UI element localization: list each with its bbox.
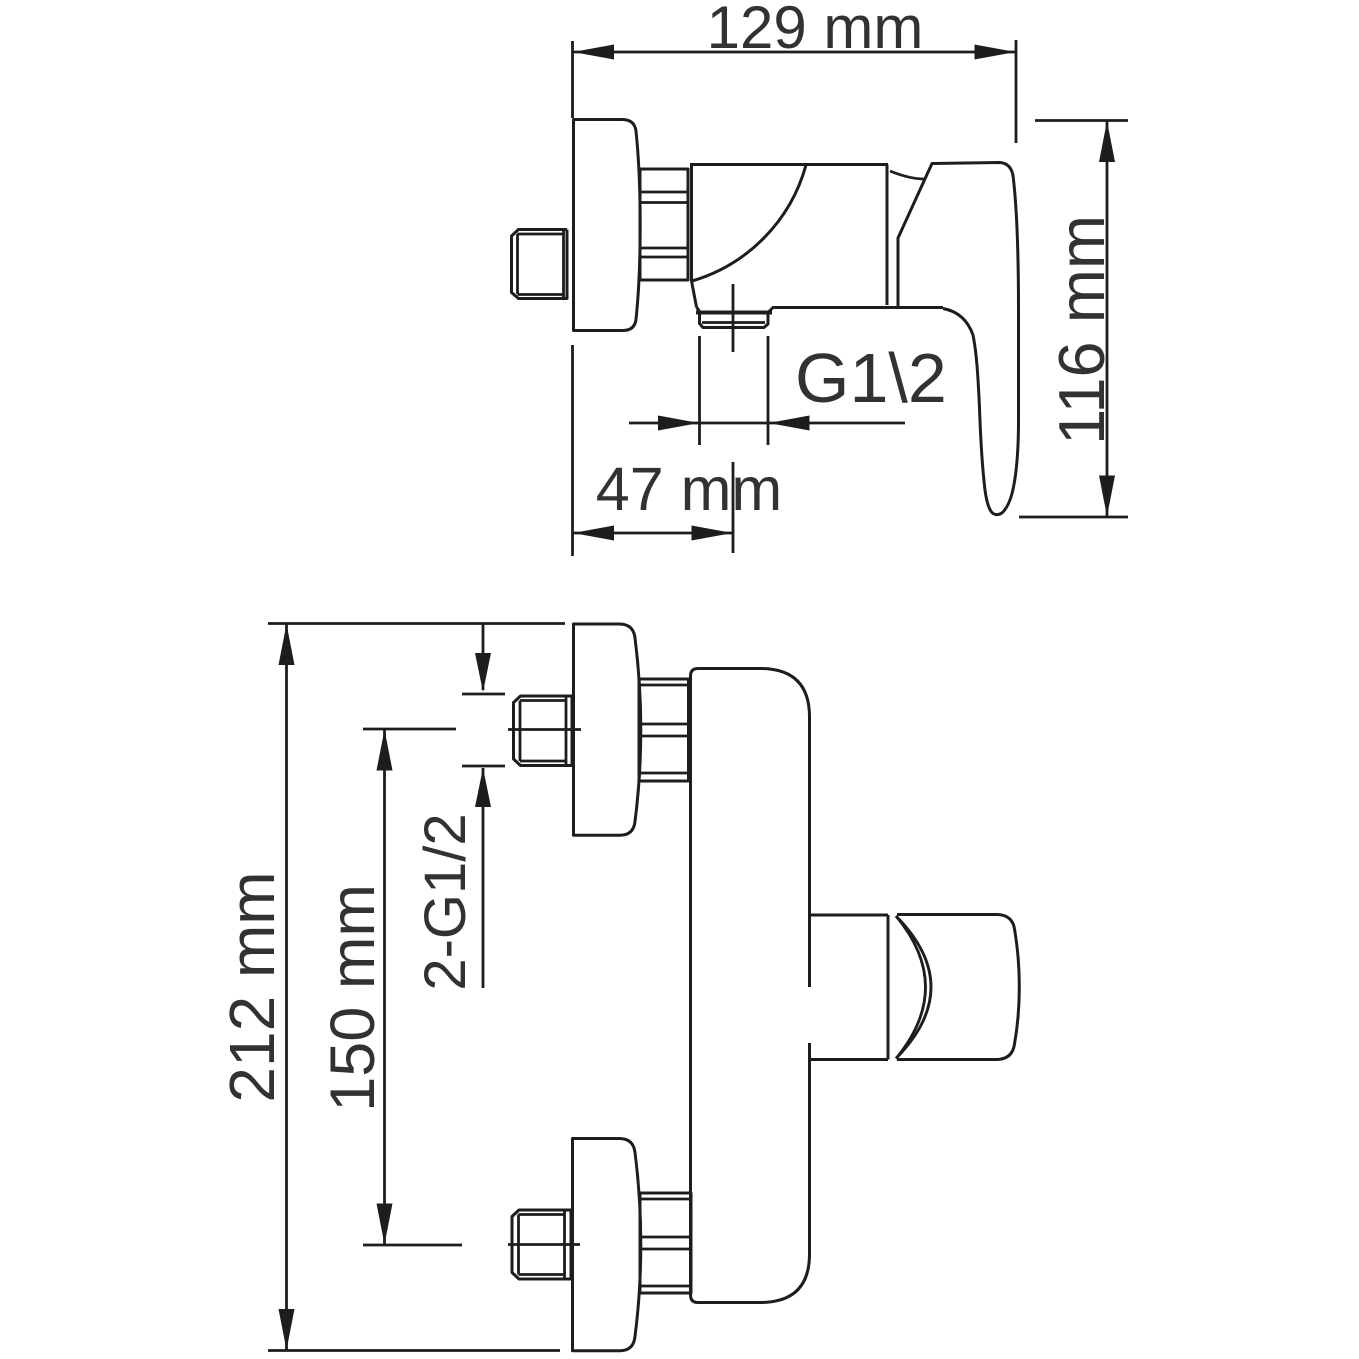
- svg-text:212 mm: 212 mm: [216, 871, 288, 1102]
- bottom nut facet line 2: [640, 1236, 691, 1239]
- mounting plate bottom (front view): [573, 1139, 641, 1351]
- nut facet line 4: [640, 256, 688, 259]
- faucet body top edge (side view): [690, 163, 888, 166]
- dim 116mm arrowhead down: [1099, 476, 1115, 517]
- top hex nut (front view) outline: [639, 679, 689, 781]
- dim G1\2 extension right: [767, 336, 770, 445]
- dim 129mm arrowhead left: [573, 45, 614, 60]
- dim 2-G1/2 arrowhead down: [475, 653, 491, 692]
- dim 150mm dimension line: [383, 729, 386, 1245]
- top nipple center line: [508, 728, 581, 731]
- top nipple (front view): [514, 696, 573, 766]
- top nut facet line 1: [639, 684, 689, 687]
- mounting plate top (front view): [574, 624, 641, 835]
- dim 47mm arrowhead left: [573, 526, 614, 541]
- outlet inner line: [702, 321, 765, 324]
- handle neck curve: [890, 171, 924, 179]
- dim G1\2 extension left: [698, 336, 701, 445]
- svg-text:129 mm: 129 mm: [707, 0, 924, 61]
- dim 116mm extension top: [1035, 119, 1128, 122]
- cartridge cap inner arc: [896, 916, 926, 1059]
- bottom nipple inner bottom line: [519, 1273, 565, 1276]
- top nut facet line 4: [639, 772, 689, 775]
- cartridge cap outer arc: [896, 916, 931, 1059]
- dim 47mm dimension line: [573, 532, 734, 535]
- svg-text:150 mm: 150 mm: [318, 884, 388, 1112]
- top nipple inner bottom line: [520, 760, 566, 763]
- dim 2-G1/2 arrowhead up: [475, 768, 491, 807]
- bottom nut facet line 3: [640, 1248, 691, 1251]
- dim 150mm arrowhead down: [377, 1204, 393, 1245]
- handle stem bottom line: [810, 1058, 889, 1061]
- bottom hex nut (front view) outline: [640, 1193, 691, 1293]
- nut facet line 2: [640, 201, 688, 204]
- dim 212mm extension top: [268, 622, 565, 625]
- top nut facet line 2: [639, 723, 689, 726]
- nipple inner bottom line: [518, 293, 564, 296]
- dim 150mm extension top: [363, 728, 456, 731]
- faucet body right edge: [886, 165, 889, 306]
- handle lever blade (front view): [897, 915, 1019, 1060]
- dim 150mm arrowhead up: [377, 730, 393, 771]
- dim 116mm arrowhead up: [1099, 121, 1115, 162]
- bottom nipple center line: [508, 1243, 580, 1246]
- nut facet line 1: [640, 191, 688, 194]
- dim 212mm arrowhead up: [279, 624, 295, 665]
- top nipple face line: [565, 696, 568, 766]
- svg-text:2-G1/2: 2-G1/2: [413, 813, 478, 990]
- svg-text:116 mm: 116 mm: [1045, 215, 1118, 445]
- top nut facet line 3: [639, 735, 689, 738]
- handle stem top line (front view): [810, 914, 889, 917]
- dim 150mm extension bottom: [363, 1244, 462, 1247]
- svg-text:47 mm: 47 mm: [596, 455, 782, 523]
- dim 212mm extension bottom: [268, 1349, 560, 1352]
- dim G1\2 arrowhead pointing left: [769, 416, 810, 431]
- nipple chamfer line: [516, 234, 519, 294]
- bottom nipple (front view): [512, 1210, 571, 1279]
- hex nut (side view) outline: [640, 169, 688, 280]
- bottom nipple inner top line: [519, 1213, 565, 1216]
- dim G1\2 dimension line: [629, 422, 905, 425]
- bottom nipple chamfer line: [517, 1215, 520, 1275]
- nut facet line 3: [640, 247, 688, 250]
- top nipple chamfer line: [519, 701, 522, 762]
- outlet ledge line: [696, 311, 772, 315]
- nipple inner top line: [518, 233, 564, 236]
- dim 129mm arrowhead right: [975, 45, 1016, 60]
- handle lever (side view): [898, 163, 1019, 515]
- wall plate (side view): [574, 120, 641, 331]
- dim 212mm dimension line: [285, 624, 288, 1351]
- dim 2-G1/2 upper tick: [462, 693, 505, 696]
- dim 129mm extension line right: [1015, 40, 1018, 143]
- nipple face line: [562, 230, 565, 299]
- dim 47mm extension right: [732, 462, 735, 553]
- dim 116mm dimension line: [1106, 121, 1109, 518]
- outlet center line: [732, 284, 735, 352]
- svg-text:G1\2: G1\2: [795, 339, 947, 417]
- faucet body (front view): [691, 669, 810, 1303]
- dim 47mm arrowhead right: [692, 526, 733, 541]
- cartridge collar line: [887, 915, 890, 1060]
- dim 116mm extension bottom: [1019, 516, 1128, 519]
- dim 2-G1/2 lower tick: [462, 765, 505, 768]
- dim 212mm arrowhead down: [279, 1309, 295, 1350]
- dim 47mm extension left: [571, 345, 574, 556]
- top nipple inner top line: [520, 699, 566, 702]
- dim 2-G1/2 lower leader: [482, 768, 485, 988]
- dim 129mm dimension line: [573, 51, 1017, 54]
- body interior arc: [692, 165, 806, 281]
- bottom nut facet line 4: [640, 1285, 691, 1288]
- dim 2-G1/2 upper leader: [482, 624, 485, 690]
- bottom nut facet line 1: [640, 1198, 691, 1201]
- dim G1\2 arrowhead pointing right: [658, 416, 699, 431]
- body bottom edge and shower outlet: [697, 307, 944, 328]
- wall nipple (side view): [512, 230, 568, 299]
- faucet body left edge: [692, 165, 697, 308]
- bottom nipple face line: [563, 1210, 566, 1279]
- dim 129mm extension line left: [571, 41, 574, 118]
